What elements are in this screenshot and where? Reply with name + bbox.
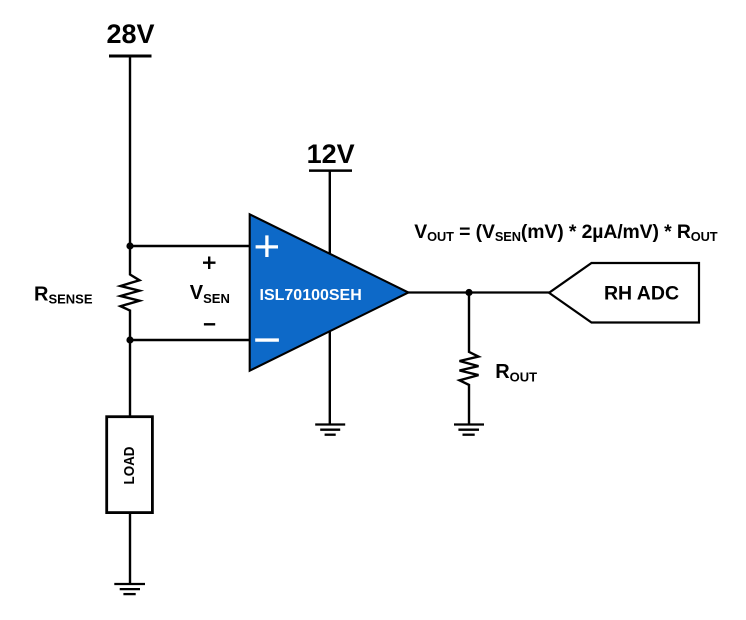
svg-text:LOAD: LOAD	[121, 446, 138, 484]
svg-text:28V: 28V	[106, 19, 154, 49]
svg-text:VOUT = (VSEN(mV) * 2µA/mV) * R: VOUT = (VSEN(mV) * 2µA/mV) * ROUT	[414, 221, 717, 244]
svg-text:ISL70100SEH: ISL70100SEH	[260, 287, 362, 304]
svg-text:RH ADC: RH ADC	[604, 283, 679, 305]
svg-text:12V: 12V	[307, 139, 355, 169]
